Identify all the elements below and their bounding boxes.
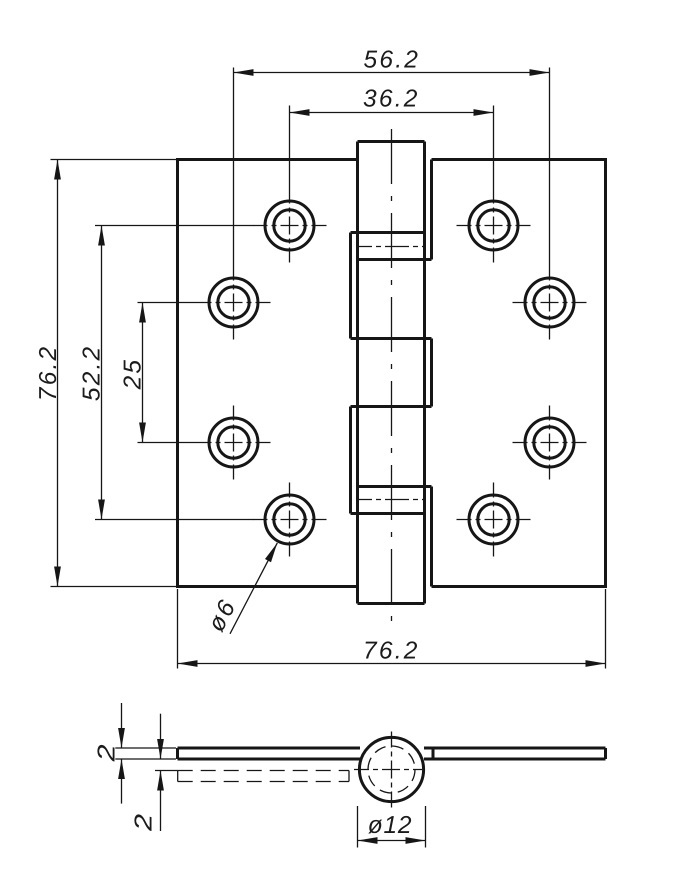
svg-text:2: 2 <box>94 744 121 763</box>
barrel crosshair horizontal <box>354 769 422 771</box>
ext line bar top <box>115 747 176 749</box>
svg-text:56.2: 56.2 <box>364 46 420 73</box>
hole H4 (549,303) <box>525 278 574 327</box>
svg-text:25: 25 <box>120 358 147 391</box>
barrel circle side view <box>359 737 423 801</box>
ext line row1 <box>95 225 253 227</box>
joint B left outer edge <box>349 407 352 514</box>
arrow 52.2 bottom <box>98 500 105 520</box>
ext line circle left <box>357 806 359 848</box>
leaf bar left segment <box>178 748 361 759</box>
knuckle right main edge <box>423 142 426 604</box>
dim line 76.2 bottom <box>178 663 606 665</box>
dimension 52.2 left <box>95 226 253 520</box>
leaf joint tick <box>432 748 435 759</box>
joint B pivot dash-dot <box>358 499 425 501</box>
svg-text:2: 2 <box>131 813 158 832</box>
hinge plate outline top view <box>178 160 606 587</box>
centerline H8 horizontal <box>457 519 531 521</box>
screw holes <box>209 201 574 544</box>
arrow 56.2 right <box>530 69 550 76</box>
svg-text:76.2: 76.2 <box>35 345 62 401</box>
hole H3 (234,303) <box>209 278 258 327</box>
dimension 25 left <box>138 303 197 443</box>
hole H8 (493,520) <box>469 495 518 544</box>
centerline H7 horizontal <box>253 519 327 521</box>
hole H6 (549,443) <box>525 418 574 467</box>
centerline H7 vertical <box>289 483 291 557</box>
centerline H6 horizontal <box>513 442 587 444</box>
joint A lower line <box>358 258 432 261</box>
centerline H2 horizontal <box>457 225 531 227</box>
dimension 76.2 left <box>51 160 178 587</box>
dimension o12 <box>358 806 426 848</box>
arrow 76.2 bottom <box>54 567 61 587</box>
knuckle right outer edge middle <box>430 339 433 407</box>
ext line hidden top <box>155 770 178 772</box>
ext line bottom <box>51 586 178 588</box>
side view leaf bar <box>178 748 606 759</box>
svg-text:76.2: 76.2 <box>363 637 419 664</box>
centerline H2 vertical <box>493 189 495 263</box>
dim line 56.2 <box>234 72 550 74</box>
svg-text:ø12: ø12 <box>368 812 413 839</box>
dimension 2 lower <box>155 714 178 831</box>
ext line right col inner <box>493 106 495 189</box>
dimension 36.2 <box>290 106 494 189</box>
pin hole dashed circle <box>368 746 415 793</box>
arrow 2b up <box>157 771 164 791</box>
joint A pivot dash-dot <box>358 246 425 248</box>
centerline H3 horizontal <box>197 302 271 304</box>
ext line bottom-right corner <box>605 589 607 669</box>
hole H1 (290,226) <box>265 201 314 250</box>
dim line o12 <box>358 840 426 842</box>
joint B upper line <box>358 485 432 488</box>
hole H7 (290,520) <box>265 495 314 544</box>
ext line circle right <box>425 806 427 848</box>
ext line row3 <box>138 442 197 444</box>
svg-text:ø6: ø6 <box>203 594 242 636</box>
dim line 36.2 <box>290 112 494 114</box>
dim line 2b above <box>160 714 162 759</box>
arrow 36.2 left <box>290 109 310 116</box>
dim line 76.2 vertical <box>57 160 59 587</box>
arrow 2b down <box>157 739 164 759</box>
hidden leaf dashed <box>178 771 349 782</box>
knuckle middle divider upper <box>351 337 432 340</box>
hidden leaf top dashed <box>178 770 349 772</box>
arrow 36.2 right <box>474 109 494 116</box>
hole H2 (493,226) <box>469 201 518 250</box>
arrow 25 top <box>139 303 146 323</box>
dim line 25 vertical <box>142 303 144 443</box>
barrel center axis dash-dot <box>391 129 393 623</box>
dim line 2b below <box>160 771 162 832</box>
centerline H5 vertical <box>233 406 235 480</box>
leader o6 <box>230 543 277 634</box>
dimension 2 upper <box>115 703 176 804</box>
ext line top <box>51 159 178 161</box>
centerline H8 vertical <box>493 483 495 557</box>
leaf bar right end cap <box>604 748 607 759</box>
centerline H4 horizontal <box>513 302 587 304</box>
leaf bar right segment <box>424 748 606 759</box>
ext line row4 <box>95 519 253 521</box>
arrow 2a up <box>118 759 125 779</box>
knuckle middle divider lower <box>351 405 432 408</box>
ext line right col <box>549 68 551 266</box>
hidden leaf left edge <box>177 771 179 782</box>
arrow 76.2b left <box>178 660 198 667</box>
joint A left outer edge <box>349 233 352 339</box>
hole centerlines dash-dot <box>197 189 587 557</box>
dim line 52.2 vertical <box>101 226 103 520</box>
ext line bottom-left corner <box>177 589 179 669</box>
dimension 76.2 bottom <box>178 589 606 669</box>
ext line row2 <box>138 302 197 304</box>
centerline H1 vertical <box>289 189 291 263</box>
knuckle right outer edge upper <box>430 160 433 260</box>
barrel knuckle column <box>351 142 432 604</box>
centerline H5 horizontal <box>197 442 271 444</box>
dim line 2a below <box>121 759 123 804</box>
ext line left col <box>233 68 235 266</box>
hole H5 (234,443) <box>209 418 258 467</box>
knuckle top cap <box>358 140 425 143</box>
barrel crosshair vertical <box>391 732 393 808</box>
svg-text:36.2: 36.2 <box>363 85 419 112</box>
arrow o12 right <box>406 837 426 844</box>
knuckle bottom cap <box>358 602 425 605</box>
centerline H6 vertical <box>549 406 551 480</box>
arrow 76.2b right <box>586 660 606 667</box>
arrow 2a down <box>118 728 125 748</box>
arrow 76.2 top <box>54 160 61 180</box>
dimension 56.2 <box>234 68 550 266</box>
knuckle left main edge <box>356 142 359 604</box>
hidden leaf bottom dashed <box>178 781 349 783</box>
ext line left col inner <box>289 106 291 189</box>
arrow o12 left <box>358 837 378 844</box>
centerline H4 vertical <box>549 266 551 340</box>
centerline H1 horizontal <box>253 225 327 227</box>
dim line 2a above <box>121 703 123 748</box>
centerline H3 vertical <box>233 266 235 340</box>
leaf bar left end cap <box>176 748 179 759</box>
joint A upper line <box>351 231 425 234</box>
hidden leaf right end dash <box>348 771 350 782</box>
svg-text:52.2: 52.2 <box>79 345 106 401</box>
arrow 25 bottom <box>139 423 146 443</box>
arrow 52.2 top <box>98 226 105 246</box>
ext line bar bottom <box>115 758 176 760</box>
knuckle right outer edge lower <box>430 487 433 587</box>
joint B lower line <box>351 512 425 515</box>
arrow o6 <box>265 543 277 562</box>
arrow 56.2 left <box>234 69 254 76</box>
